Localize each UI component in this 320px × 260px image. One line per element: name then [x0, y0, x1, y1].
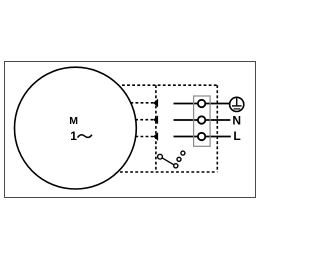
terminal PE (top): [198, 100, 205, 107]
dashed enclosure box bottom edge: [120, 171, 217, 173]
motor label 1~ (single phase): [70, 129, 92, 143]
dashed enclosure box right edge: [216, 85, 218, 172]
switch contact position 3: [181, 151, 185, 155]
wire motor to connector pin 3 (dashed): [135, 136, 154, 138]
svg-text:N: N: [232, 113, 241, 127]
terminal N (middle): [198, 116, 205, 123]
wire connector to L terminal: [174, 136, 231, 138]
wire connector to earth terminal: [174, 103, 230, 105]
dashed connector panel line (inner vertical): [155, 85, 157, 172]
speed selector switch pole: [158, 154, 163, 159]
svg-text:L: L: [233, 129, 240, 143]
wire motor to connector pin 2 (dashed): [135, 119, 154, 121]
dashed enclosure box (terminal box) top edge: [122, 84, 217, 86]
plug connector arrow pin 1: [153, 99, 158, 108]
switch wiper: [162, 158, 173, 165]
switch contact position 1: [174, 164, 178, 168]
motor M1 circle: [15, 67, 137, 189]
wire connector to N terminal: [174, 119, 231, 121]
svg-text:M: M: [69, 115, 78, 127]
svg-text:1: 1: [70, 129, 77, 143]
plug connector arrow pin 2: [153, 115, 158, 124]
terminal L (bottom): [198, 133, 205, 140]
terminal block rectangle: [194, 96, 211, 146]
protective earth symbol circle: [230, 97, 244, 111]
switch contact position 2: [177, 157, 181, 161]
border frame: [5, 62, 256, 198]
plug connector arrow pin 3: [153, 132, 158, 141]
wire motor to connector pin 1 (dashed): [130, 102, 154, 104]
